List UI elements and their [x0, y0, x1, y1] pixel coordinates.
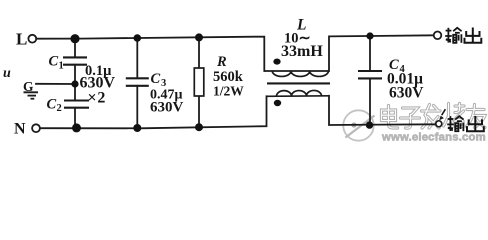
wire C1 C2 branch	[74, 39, 76, 57]
dian	[382, 106, 398, 129]
svg-text:33mH: 33mH	[281, 43, 323, 60]
inductor L bottom winding	[267, 90, 330, 96]
svg-text:www.elecfans.com: www.elecfans.com	[381, 132, 486, 144]
inductor L top winding	[264, 71, 329, 76]
svg-text:630V: 630V	[389, 84, 424, 101]
you	[467, 105, 486, 128]
svg-text:1: 1	[59, 61, 64, 72]
watermark text dianzifashaoyou	[382, 104, 486, 129]
svg-text:630V: 630V	[150, 100, 184, 116]
svg-text:R: R	[216, 54, 227, 70]
wire ground to junction	[36, 83, 75, 85]
label shuchu bottom (Chinese: output)	[447, 116, 484, 131]
terminal output top circle	[434, 32, 442, 40]
svg-text:u: u	[3, 66, 11, 81]
polarity dot top winding	[273, 59, 280, 65]
terminal N circle	[32, 124, 40, 132]
svg-text:C: C	[47, 97, 57, 113]
watermark text white core	[382, 104, 486, 129]
terminal output bottom circle	[436, 121, 442, 127]
capacitor C3	[126, 78, 149, 86]
wire N bottom line	[40, 96, 267, 128]
svg-text:1/2W: 1/2W	[213, 84, 244, 99]
shao	[444, 104, 465, 127]
capacitor C1	[63, 57, 87, 64]
wire bottom right segment	[329, 96, 436, 125]
svg-text:2: 2	[57, 103, 62, 114]
svg-text:L: L	[16, 30, 27, 49]
svg-text:C: C	[151, 71, 161, 87]
svg-text:C: C	[49, 54, 59, 70]
fa	[422, 105, 441, 129]
ground symbol	[24, 92, 39, 98]
zi	[401, 108, 420, 128]
wire C4 branch	[369, 36, 371, 71]
capacitor C2	[64, 101, 89, 108]
watermark logo circle	[343, 110, 374, 140]
inductor L core line	[267, 82, 330, 84]
svg-text:N: N	[14, 120, 26, 137]
wire R branch	[198, 38, 200, 69]
svg-text:G: G	[23, 79, 34, 94]
zi	[401, 108, 420, 128]
resistor R1 body	[194, 68, 204, 96]
wire top right segment	[329, 35, 433, 71]
polarity dot bottom winding	[274, 100, 281, 106]
wire C3 branch	[136, 38, 138, 78]
shao	[444, 104, 465, 127]
dian	[382, 106, 398, 129]
terminal L circle	[28, 35, 36, 43]
fa	[422, 105, 441, 129]
capacitor C4	[358, 71, 382, 78]
svg-text:×2: ×2	[88, 90, 107, 107]
wire L top line	[37, 37, 265, 71]
you	[467, 105, 486, 128]
arrow at bottom output	[439, 109, 445, 120]
